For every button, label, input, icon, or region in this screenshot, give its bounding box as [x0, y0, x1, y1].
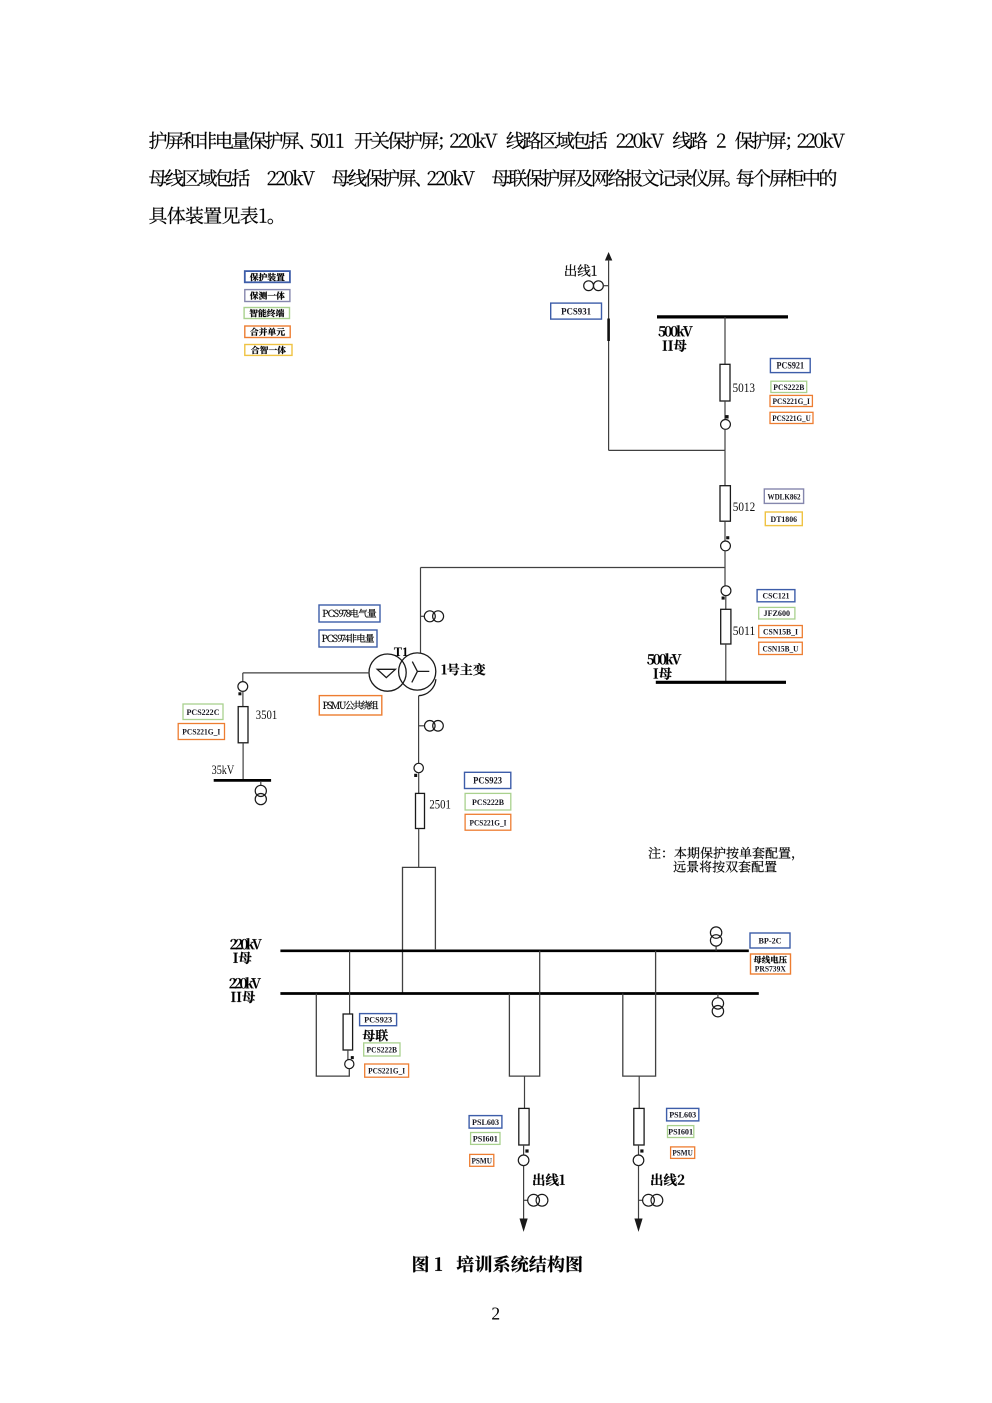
svg-text:PCS222B: PCS222B: [367, 1045, 398, 1055]
legend box: smart terminal: [244, 308, 289, 319]
protection box PSL603 (feeder2): [667, 1108, 699, 1121]
svg-text:PCS222B: PCS222B: [472, 797, 504, 807]
label 出线1 (top): [565, 264, 597, 276]
svg-text:PCS923: PCS923: [473, 776, 502, 786]
bay rectangle feeder1: [509, 951, 539, 1076]
merging unit box PSMU common winding: [319, 696, 382, 715]
svg-text:PCS221G_I: PCS221G_I: [772, 396, 810, 406]
label 220kV I母: [230, 938, 261, 949]
wire: feeder1 horizontal to junction: [609, 449, 725, 451]
protection box BP-2C: [750, 933, 790, 948]
bay rectangle (transformer to 220kV buses): [403, 867, 436, 993]
smart terminal box PCS222B: [771, 381, 807, 392]
svg-text:PCS221G_I: PCS221G_I: [182, 727, 220, 737]
svg-text:5011: 5011: [733, 624, 756, 638]
PT below 35kV bus: [260, 781, 262, 786]
paragraph line 3: [149, 207, 273, 225]
svg-text:PSMU: PSMU: [471, 1155, 492, 1165]
wire: CT down to arrow feeder2: [638, 1166, 640, 1219]
wire: breaker to CT feeder2: [638, 1145, 640, 1155]
CT below 5012: [721, 541, 731, 551]
merging unit box PCS221G_U: [770, 412, 813, 423]
bus 35kV: [214, 779, 271, 782]
protection box CSC121: [757, 590, 795, 602]
svg-text:WDLK862: WDLK862: [768, 491, 801, 501]
arrow down feeder1: [520, 1219, 528, 1232]
svg-text:PCS221G_I: PCS221G_I: [470, 817, 507, 827]
smart terminal box JFZ600: [759, 607, 795, 619]
svg-text:CSN15B_I: CSN15B_I: [763, 627, 798, 637]
breaker feeder1: [519, 1108, 529, 1145]
merge-terminal box DT1806: [765, 512, 802, 526]
smart terminal box PSI601 (feeder2): [668, 1126, 694, 1138]
svg-text:PCS931: PCS931: [561, 307, 591, 317]
merging unit box CSN15B_I: [759, 626, 803, 638]
smart terminal box PCS222B (coupler): [364, 1043, 400, 1056]
CT on feeder1 (two circles): [584, 281, 594, 291]
label 500kV II母: [659, 325, 693, 336]
PT below bus II: [717, 994, 719, 999]
CT below 5013: [721, 420, 731, 430]
breaker coupler: [343, 1014, 353, 1050]
svg-text:PSI601: PSI601: [473, 1134, 498, 1144]
svg-text:BP-2C: BP-2C: [759, 936, 782, 946]
label 1号主变: [442, 663, 486, 675]
CT feeder2: [633, 1155, 644, 1166]
PT on feeder1: [524, 1199, 529, 1201]
wire: CT to 5011: [725, 596, 727, 610]
svg-text:5012: 5012: [733, 500, 756, 514]
bay rectangle feeder2: [623, 951, 656, 1076]
note line 1: [649, 847, 794, 861]
merging unit box PCS221G_I (3501): [178, 724, 224, 740]
wire: 5011 to bus I: [725, 644, 727, 682]
PT above bus I: [715, 946, 717, 951]
protection box PCS923 (2501): [465, 772, 511, 788]
wire: breaker to CT feeder1: [523, 1145, 525, 1155]
legend box: merge+terminal integrated: [245, 345, 292, 356]
wire: CT to junction: [724, 429, 726, 450]
svg-text:2: 2: [491, 1303, 500, 1323]
svg-text:PSMU: PSMU: [672, 1148, 693, 1158]
merging unit box PCS221G_I (2501): [465, 814, 511, 830]
wire: feeder1 vertical: [608, 260, 610, 451]
wire: 5013 to CT: [724, 401, 726, 420]
svg-text:JFZ600: JFZ600: [764, 608, 791, 618]
transformer T1: LV winding arc: [419, 679, 436, 696]
CT on 500kV lead: [421, 615, 425, 617]
transformer T1: MV winding (wye): [399, 653, 436, 690]
transformer T1: HV winding (delta): [369, 654, 406, 691]
label 220kV II母: [230, 977, 261, 988]
paragraph line 1: [149, 131, 845, 149]
wire: 35kV horizontal: [243, 672, 369, 674]
smart terminal box PCS222C: [183, 704, 223, 720]
CT below coupler: [345, 1060, 354, 1069]
label 500kV I母: [647, 653, 681, 664]
breaker 5013: [720, 364, 730, 401]
label 出线2 (bottom): [651, 1173, 684, 1186]
breaker 2501: [416, 793, 425, 828]
svg-text:DT1806: DT1806: [771, 514, 798, 524]
svg-text:PRS739X: PRS739X: [755, 964, 787, 974]
wire: bus II to 5013: [724, 317, 726, 364]
merging unit box PCS221G_I: [770, 395, 812, 406]
wire: transformer 220kV lead: [418, 696, 420, 764]
smart terminal box PSI601 (feeder1): [471, 1133, 500, 1145]
wire: coupler loop to bus II: [316, 994, 349, 1077]
breaker tick on feeder1 (solid segment): [607, 319, 610, 342]
legend box: merging unit: [245, 326, 290, 338]
svg-text:PCS221G_U: PCS221G_U: [772, 413, 811, 423]
label 母联: [363, 1029, 388, 1041]
smart terminal box PCS222B (2501): [465, 793, 511, 810]
wire: transformer 500kV lead: [420, 568, 422, 654]
legend box: protection-measure integrated: [245, 290, 290, 302]
wire: CT to 3501: [242, 691, 244, 706]
svg-text:PSL603: PSL603: [472, 1117, 500, 1127]
CT above 5011: [724, 568, 726, 586]
wire: CT to junction2: [724, 551, 726, 568]
svg-text:T1: T1: [394, 645, 409, 659]
CT feeder1: [518, 1155, 529, 1166]
wire: feeder2 down: [638, 1076, 640, 1108]
wire: junction to 5012: [724, 450, 726, 485]
figure caption: [413, 1255, 582, 1272]
merging unit box CSN15B_U: [759, 642, 803, 654]
breaker 5011: [721, 609, 731, 644]
breaker feeder2: [634, 1108, 644, 1145]
svg-text:PCS923: PCS923: [364, 1015, 393, 1025]
svg-text:CSC121: CSC121: [763, 591, 790, 601]
merging unit box PSMU (feeder1): [470, 1154, 494, 1166]
wire: CT down to arrow feeder1: [523, 1166, 525, 1219]
svg-text:PCS921: PCS921: [777, 361, 805, 371]
wire: 3501 to 35kV bus: [242, 743, 244, 780]
wire: 35kV vertical to CT: [242, 673, 244, 682]
CT circle above 2501: [414, 763, 423, 772]
wire: coupler from bus I down: [349, 951, 351, 1014]
svg-text:CSN15B_U: CSN15B_U: [763, 643, 800, 653]
svg-text:PCS222B: PCS222B: [773, 382, 804, 392]
breaker 3501: [238, 707, 248, 743]
CT above 3501: [238, 682, 248, 692]
svg-text:3501: 3501: [256, 708, 278, 722]
merging unit box 母线电压 PRS739X: [751, 954, 791, 974]
protection box PCS931: [551, 303, 602, 319]
svg-text:5013: 5013: [733, 381, 756, 395]
protection-measure box WDLK862: [764, 489, 803, 503]
protection box PCS974 non-electrical: [319, 630, 377, 647]
merging unit box PCS221G_I (coupler): [365, 1064, 409, 1077]
note line 2: [674, 861, 777, 873]
svg-text:PSL603: PSL603: [669, 1110, 697, 1120]
protection box PCS923 (coupler): [360, 1014, 397, 1026]
wire: 5012 to CT: [724, 521, 726, 541]
breaker 5012: [720, 486, 730, 522]
bus 220kV I: [280, 949, 748, 952]
PT on feeder2: [639, 1199, 644, 1201]
protection box PCS921: [770, 359, 810, 373]
svg-text:PCS221G_I: PCS221G_I: [368, 1066, 405, 1076]
svg-text:2501: 2501: [429, 798, 451, 812]
label 出线1 (bottom): [533, 1173, 565, 1186]
svg-text:PSI601: PSI601: [668, 1127, 693, 1137]
protection box PCS978 electrical: [319, 605, 380, 622]
arrow down feeder2: [634, 1219, 642, 1232]
paragraph line 2: [149, 169, 836, 187]
bus 500kV I: [656, 681, 786, 684]
wire: feeder1 down: [524, 1076, 526, 1108]
bus 220kV II: [280, 992, 758, 995]
feeder line1 500kV arrow up: [605, 252, 612, 261]
merging unit box PSMU (feeder2): [671, 1147, 695, 1159]
protection box PSL603 (feeder1): [469, 1116, 502, 1129]
wire: CT to 2501: [418, 773, 420, 794]
svg-text:PCS222C: PCS222C: [187, 707, 220, 717]
wire: junction2 horizontal to transformer lead: [421, 567, 726, 569]
wire: coupler breaker to CT: [347, 1050, 349, 1060]
svg-text:35kV: 35kV: [212, 762, 235, 777]
legend box: protection device: [245, 271, 290, 282]
CT on 220kV lead: [419, 725, 425, 727]
wire: 2501 to bay rect: [418, 829, 420, 868]
bus 500kV II: [657, 315, 788, 318]
